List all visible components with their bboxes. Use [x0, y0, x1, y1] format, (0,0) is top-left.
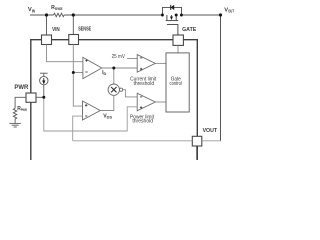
comparator current limit [137, 55, 155, 73]
wire VIN pin to ID+ [47, 45, 83, 62]
wire ID output to comparator [102, 67, 137, 69]
node rail-VIN [45, 13, 48, 16]
wire PWR pin to RPWR [15, 97, 26, 108]
gate lead [167, 25, 178, 35]
pin box VOUT [192, 136, 202, 146]
VDS - sign [85, 115, 87, 117]
multiplier output bubble [120, 88, 123, 91]
wire VDS- from VOUT net [73, 116, 83, 141]
channel bar [166, 20, 179, 22]
pin box SENSE [69, 35, 79, 45]
wire VOUT net bottom [73, 140, 193, 142]
source stub [175, 15, 177, 20]
wire GATE pin to gate control [177, 45, 179, 53]
node ID output tap [112, 67, 115, 70]
wire SENSE pin down to VDS+ [73, 45, 82, 107]
svg-text:GATE: GATE [182, 27, 196, 33]
current source I1 [40, 73, 48, 97]
wire comparator to gate control [155, 62, 166, 64]
svg-text:RPWR: RPWR [17, 106, 27, 112]
ID - sign [85, 71, 87, 73]
resistor RPWR [13, 108, 17, 119]
multiplier X1 [108, 84, 119, 95]
wire multiplier to power comparator [123, 90, 138, 97]
svg-text:VIN: VIN [52, 27, 60, 33]
wire VIN drop from rail [46, 15, 48, 35]
current source arrow [42, 81, 45, 84]
wire SENSE drop from rail [72, 15, 74, 35]
drain stub [166, 15, 168, 20]
node bridge left [161, 14, 164, 17]
wire VDS output to multiplier bottom [100, 95, 114, 110]
svg-text:VIN: VIN [28, 7, 35, 13]
IC outline border [31, 40, 198, 160]
svg-text:SENSE: SENSE [78, 27, 91, 33]
comp2 - sign [140, 96, 142, 98]
node rail-SENSE [72, 13, 75, 16]
svg-text:threshold: threshold [133, 81, 154, 87]
wire rail right [182, 14, 221, 16]
wire VOUT drop right side [220, 15, 222, 141]
comp1 + sign [140, 68, 142, 70]
comp2 + sign [140, 106, 142, 108]
wire RPWR to ground [14, 119, 16, 123]
op-amp VDS [83, 101, 101, 120]
node bridge right [180, 14, 183, 17]
wire rail mid [64, 14, 162, 16]
ID + sign [85, 59, 87, 61]
junction dots [42, 13, 222, 98]
svg-text:control: control [170, 81, 182, 87]
node VOUT corner [219, 13, 222, 16]
wire VOUT pin down (load) [196, 146, 198, 160]
pin box GATE [173, 35, 183, 45]
block gate control [166, 53, 189, 112]
node source tie [175, 14, 178, 17]
node SENSE tap [72, 71, 75, 74]
op-amp ID [83, 57, 102, 78]
svg-text:RSENSE: RSENSE [51, 5, 63, 11]
comparator power limit [137, 93, 155, 111]
svg-text:ID: ID [102, 70, 106, 76]
svg-text:threshold: threshold [132, 119, 153, 125]
node PWR junction [42, 96, 45, 99]
svg-text:PWR: PWR [14, 85, 29, 91]
wire 25mV to comparator [127, 58, 137, 60]
wire power-set net [44, 97, 137, 131]
wire power comparator to gate control [155, 101, 166, 103]
pin box VIN [42, 35, 52, 45]
wire PWR pin to current source [36, 96, 44, 98]
svg-text:25 mV: 25 mV [112, 54, 126, 60]
transistor Q1 (N-channel MOSFET) [166, 15, 179, 35]
node VIN: input rail [30, 15, 221, 141]
pin box PWR [26, 93, 36, 102]
ground [9, 123, 20, 127]
transistor Q1 body-diode bridge [163, 7, 182, 15]
Q1 body arrow [170, 17, 173, 20]
VDS + sign [85, 104, 87, 106]
resistor RSENSE [54, 13, 65, 17]
wire VOUT pin right to drop [202, 140, 221, 142]
wire multiplier top input [113, 68, 115, 84]
comp1 - sign [140, 57, 142, 59]
wire ID- tap [73, 72, 83, 74]
svg-text:VDS: VDS [103, 114, 112, 120]
svg-text:VOUT: VOUT [224, 7, 234, 13]
diode D1 (body diode) [171, 5, 174, 10]
svg-text:VOUT: VOUT [203, 128, 218, 134]
wire top rail left [30, 14, 54, 16]
